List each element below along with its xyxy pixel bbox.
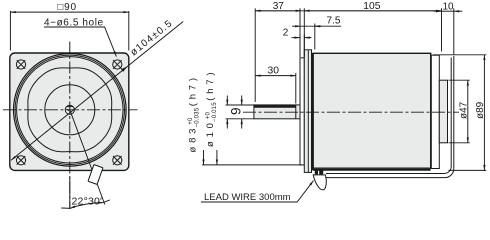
body circle ring 2 [15,55,124,164]
motor body circle outer [14,54,127,167]
svg-text:10: 10 [443,1,455,12]
lead wire leader [201,181,314,202]
svg-text:□90: □90 [57,2,77,13]
dia89 ext bottom [449,169,487,171]
body circle ring 3 [17,57,123,163]
vertical centerline bottom solid [69,177,71,209]
svg-text:105: 105 [363,1,380,12]
lead wire radial line [70,110,105,205]
grommet side horn [313,175,326,190]
dim 9 arrows pair1 [226,96,228,106]
motor body [313,53,431,168]
bearing boss circle [45,85,95,135]
angle dim arc right ext [103,200,110,203]
svg-text:ø47: ø47 [458,101,469,119]
svg-text:ø104±0.5: ø104±0.5 [128,18,175,59]
dia83 leader [203,150,205,165]
shaft [254,105,301,119]
svg-text:2: 2 [283,28,289,39]
pilot plate [300,58,304,165]
body bottom thick seam [313,169,431,171]
grommet front view [88,165,103,185]
body front seam thick [312,53,314,170]
shaft flat thick line [254,105,296,108]
dim square90 extension lines [10,11,128,51]
angle dim arc left ext [61,207,70,209]
hole label leader [44,27,116,57]
rear boss [439,80,447,143]
ext line 10 right [453,8,455,55]
dim 2 [292,37,300,39]
ext line 105r-10l [441,8,443,51]
top dim line [255,10,441,12]
dim square90 line [10,11,128,13]
side view centerline [243,111,459,113]
vertical centerline [69,42,71,209]
hole bottom-right [113,156,122,165]
stator housing wavy circle [28,68,112,152]
dim 9 arrows pair2 [241,96,243,106]
ext 30 right [295,73,297,104]
dim 30 [255,75,296,77]
svg-text:9: 9 [228,107,243,115]
dia104 leader line [11,22,183,161]
shaft circle [65,105,74,114]
dim10 arrows outside [434,10,442,12]
dim 9 ext lines [226,105,254,119]
ext line 37r-2l [299,8,301,57]
horizontal centerline [3,109,138,111]
dim 7.5 [292,25,300,27]
ext 2 lines [300,35,304,57]
flange plate seam [307,50,309,172]
shaft flat end tick [295,105,297,119]
svg-text:LEAD WIRE 300mm: LEAD WIRE 300mm [204,192,291,203]
dia47 ext top [449,79,470,81]
rear plate [431,55,439,168]
svg-text:22°30′: 22°30′ [72,195,103,207]
ext line 105l-2r [303,8,305,57]
hole top-right [113,60,122,69]
arrows 37 [255,10,301,12]
dia47 ext bottom [449,142,470,144]
arrows 105 [304,10,441,12]
svg-text:7.5: 7.5 [327,15,341,26]
dia104 arrowhead mid [121,66,128,72]
pilot bottom ext line [202,164,303,166]
flange plate [304,50,311,173]
dia47 dim line [467,80,469,143]
dia89 dim line [483,55,485,171]
ext line 37 left [254,8,256,102]
rear cover outline outer [323,56,454,178]
ext line 7.5 right [314,24,316,50]
svg-text:37: 37 [273,1,285,12]
angle dim arc [70,203,103,209]
center wedge mark [66,109,69,112]
mounting flange square [10,53,129,170]
hole bottom-left [16,156,25,165]
grommet side view dark base [315,170,323,174]
hole top-left [16,60,25,69]
dia89 ext top [433,54,486,56]
dia10 leader [216,150,218,165]
svg-text:30: 30 [268,66,280,77]
svg-text:ø83+0−0.035(h7): ø83+0−0.035(h7) [188,74,201,152]
svg-text:ø10+0−0.015(h7): ø10+0−0.015(h7) [205,69,218,147]
shaft flat chord [66,106,73,108]
svg-text:ø89: ø89 [475,101,486,119]
rear cover outline inner [326,58,451,174]
